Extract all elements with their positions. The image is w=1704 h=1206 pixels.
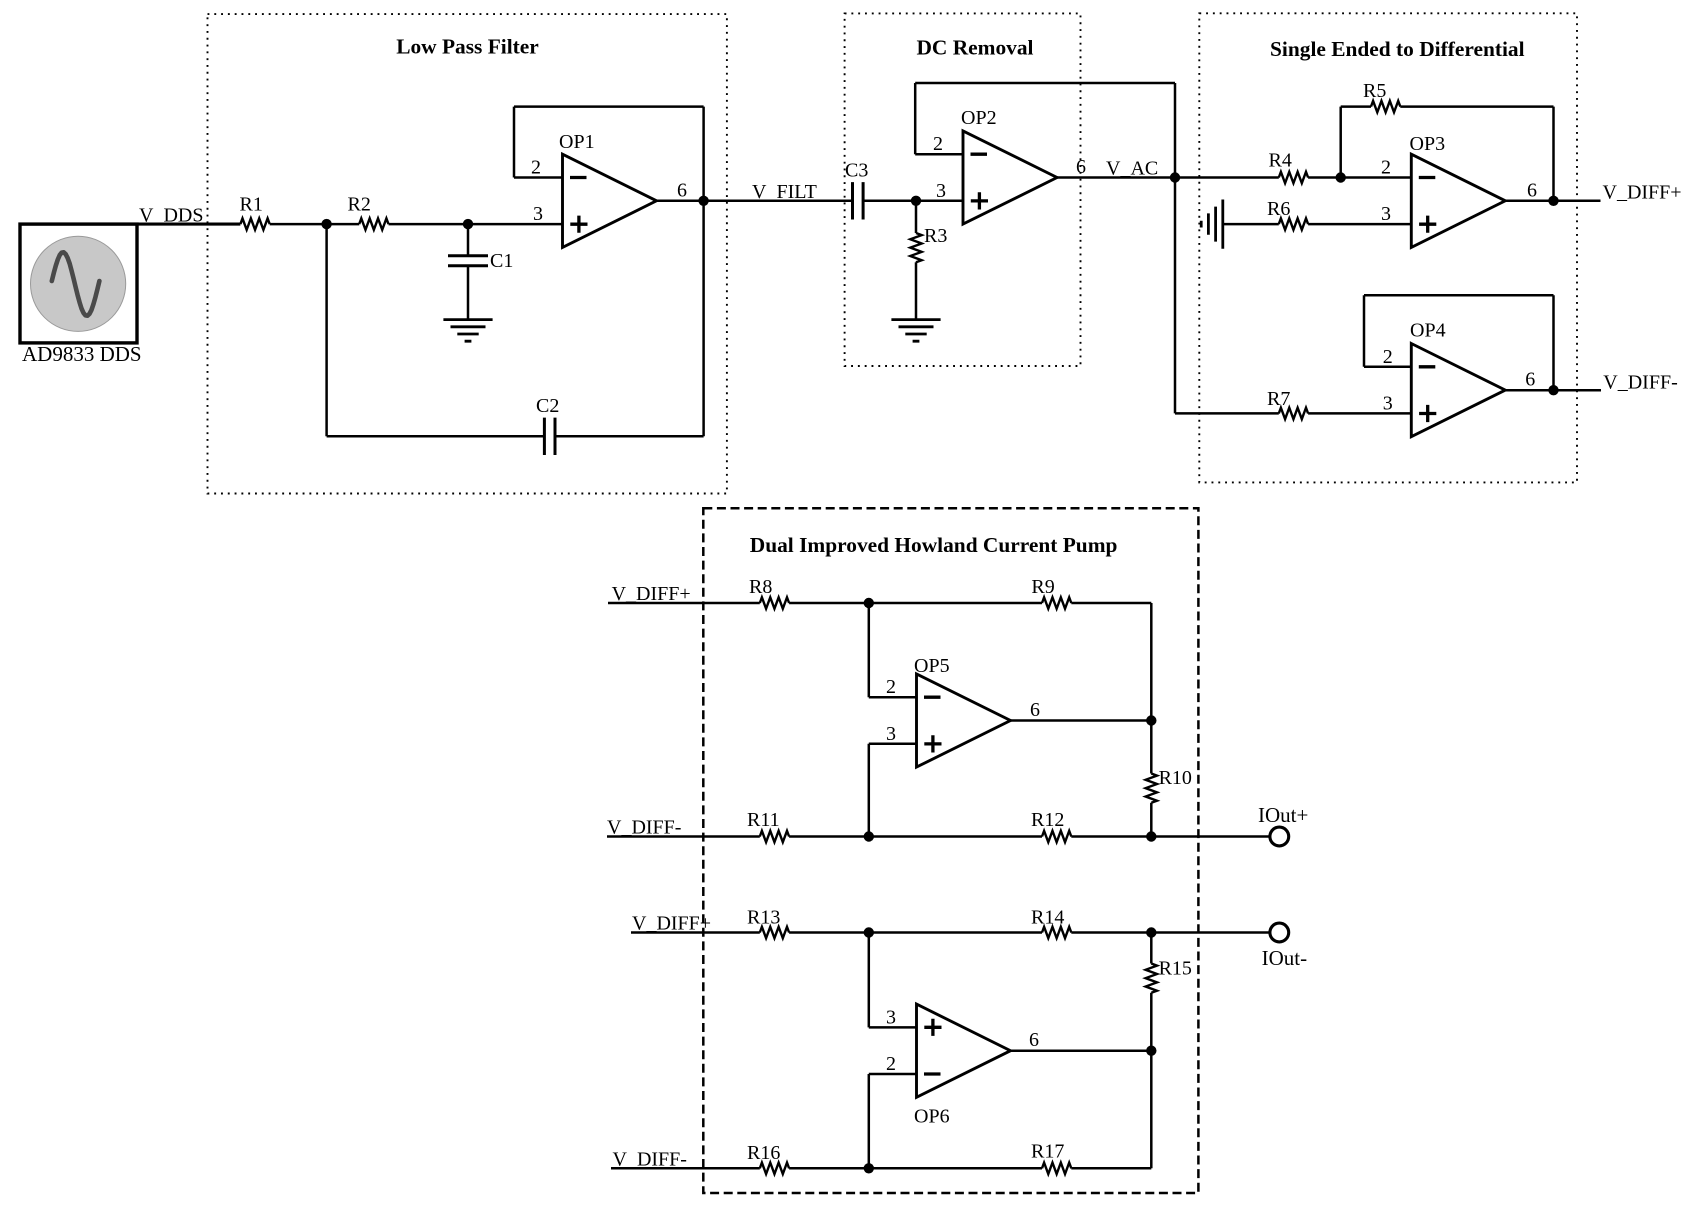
- svg-text:R2: R2: [348, 194, 371, 216]
- svg-text:2: 2: [531, 157, 541, 179]
- svg-text:V_AC: V_AC: [1106, 158, 1158, 180]
- svg-text:R10: R10: [1159, 767, 1192, 789]
- svg-text:R3: R3: [924, 225, 947, 247]
- svg-text:R5: R5: [1363, 80, 1386, 102]
- svg-text:2: 2: [886, 1053, 896, 1075]
- svg-text:R14: R14: [1031, 907, 1064, 929]
- svg-text:R16: R16: [747, 1142, 780, 1164]
- svg-text:V_DIFF+: V_DIFF+: [632, 913, 711, 935]
- svg-text:2: 2: [886, 676, 896, 698]
- svg-text:R4: R4: [1269, 150, 1292, 172]
- svg-text:R12: R12: [1031, 809, 1064, 831]
- svg-text:V_DIFF-: V_DIFF-: [607, 817, 681, 839]
- svg-text:2: 2: [1383, 346, 1393, 368]
- svg-text:R15: R15: [1159, 958, 1192, 980]
- svg-text:OP4: OP4: [1410, 320, 1446, 342]
- svg-text:3: 3: [1381, 203, 1391, 225]
- svg-text:2: 2: [1381, 157, 1391, 179]
- svg-text:2: 2: [933, 133, 943, 155]
- svg-text:R11: R11: [747, 809, 780, 831]
- svg-text:Single Ended to Differential: Single Ended to Differential: [1270, 37, 1525, 61]
- svg-text:C2: C2: [536, 395, 559, 417]
- svg-text:OP5: OP5: [914, 655, 950, 677]
- svg-text:V_DDS: V_DDS: [139, 204, 203, 226]
- svg-text:R9: R9: [1031, 576, 1054, 598]
- svg-text:3: 3: [886, 1006, 896, 1028]
- svg-text:Dual Improved Howland Current: Dual Improved Howland Current Pump: [750, 533, 1118, 557]
- svg-text:3: 3: [533, 203, 543, 225]
- svg-text:IOut-: IOut-: [1262, 946, 1308, 970]
- svg-text:V_DIFF-: V_DIFF-: [613, 1149, 687, 1171]
- svg-text:R6: R6: [1267, 198, 1290, 220]
- svg-text:6: 6: [677, 179, 687, 201]
- svg-text:AD9833 DDS: AD9833 DDS: [22, 342, 142, 366]
- svg-text:R7: R7: [1267, 388, 1290, 410]
- svg-text:3: 3: [936, 180, 946, 202]
- svg-text:V_DIFF+: V_DIFF+: [1603, 182, 1682, 204]
- svg-text:OP6: OP6: [914, 1106, 950, 1128]
- svg-text:R8: R8: [749, 576, 772, 598]
- svg-text:V_DIFF-: V_DIFF-: [1603, 372, 1677, 394]
- svg-text:OP1: OP1: [559, 131, 595, 153]
- svg-text:Low Pass Filter: Low Pass Filter: [396, 35, 539, 59]
- svg-text:6: 6: [1525, 369, 1535, 391]
- svg-text:IOut+: IOut+: [1258, 803, 1308, 827]
- svg-text:R13: R13: [747, 907, 780, 929]
- svg-text:6: 6: [1030, 699, 1040, 721]
- svg-text:R17: R17: [1031, 1141, 1064, 1163]
- svg-text:C3: C3: [845, 160, 868, 182]
- svg-text:V_DIFF+: V_DIFF+: [612, 583, 691, 605]
- svg-text:C1: C1: [490, 250, 513, 272]
- svg-text:OP2: OP2: [961, 107, 997, 129]
- svg-text:3: 3: [1383, 392, 1393, 414]
- svg-text:6: 6: [1029, 1029, 1039, 1051]
- svg-text:3: 3: [886, 723, 896, 745]
- svg-text:V_FILT: V_FILT: [752, 181, 817, 203]
- svg-text:6: 6: [1527, 179, 1537, 201]
- svg-text:OP3: OP3: [1410, 133, 1446, 155]
- svg-text:6: 6: [1076, 156, 1086, 178]
- svg-text:DC Removal: DC Removal: [916, 36, 1033, 60]
- svg-text:R1: R1: [240, 194, 263, 216]
